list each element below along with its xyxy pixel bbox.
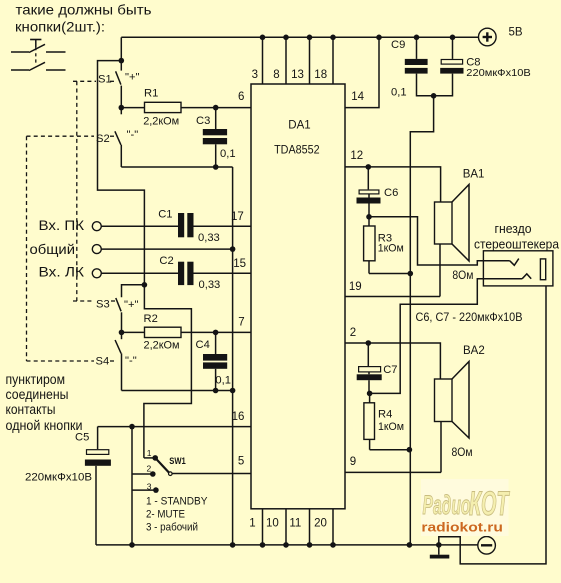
svg-text:Вх. ЛК: Вх. ЛК [39, 263, 85, 279]
svg-text:1кОм: 1кОм [378, 421, 404, 433]
svg-text:общий: общий [30, 241, 76, 257]
svg-text:9: 9 [350, 456, 356, 468]
svg-text:TDA8552: TDA8552 [274, 145, 320, 157]
svg-text:C9: C9 [391, 39, 405, 51]
svg-text:С6, С7 - 220мкФх10В: С6, С7 - 220мкФх10В [416, 310, 523, 324]
svg-text:"-": "-" [125, 355, 137, 367]
svg-text:DA1: DA1 [288, 120, 310, 132]
svg-text:11: 11 [289, 517, 301, 529]
svg-text:соединены: соединены [6, 387, 69, 402]
svg-text:3: 3 [252, 69, 258, 81]
svg-text:Вх. ПК: Вх. ПК [39, 217, 85, 233]
svg-text:BA2: BA2 [463, 345, 485, 357]
svg-text:2: 2 [147, 464, 152, 474]
svg-text:такие должны быть: такие должны быть [16, 2, 152, 18]
svg-text:6: 6 [238, 91, 244, 103]
svg-text:S1: S1 [98, 74, 112, 86]
svg-text:S4: S4 [96, 356, 110, 368]
svg-text:R2: R2 [144, 313, 158, 325]
svg-text:0,1: 0,1 [215, 375, 231, 387]
svg-text:пунктиром: пунктиром [6, 372, 66, 387]
svg-text:одной кнопки: одной кнопки [6, 418, 83, 433]
svg-text:"+": "+" [125, 72, 140, 84]
svg-text:КОТ: КОТ [469, 485, 510, 523]
svg-text:C6: C6 [384, 187, 398, 199]
svg-text:R4: R4 [378, 408, 392, 420]
svg-text:2: 2 [350, 327, 356, 339]
svg-text:SW1: SW1 [169, 456, 186, 466]
svg-text:5: 5 [238, 456, 244, 468]
svg-text:"-": "-" [127, 129, 139, 141]
svg-text:17: 17 [231, 211, 244, 223]
svg-text:2,2кОм: 2,2кОм [143, 116, 179, 128]
svg-text:8Ом: 8Ом [452, 447, 473, 459]
svg-text:1кОм: 1кОм [378, 243, 404, 255]
svg-text:C2: C2 [159, 255, 173, 267]
svg-text:5В: 5В [509, 26, 523, 38]
svg-text:R1: R1 [144, 88, 158, 100]
svg-text:15: 15 [233, 258, 246, 270]
svg-text:13: 13 [291, 69, 304, 81]
svg-text:20: 20 [314, 517, 327, 529]
svg-text:C1: C1 [158, 208, 172, 220]
svg-text:C4: C4 [196, 339, 210, 351]
svg-text:0,1: 0,1 [220, 148, 236, 160]
svg-text:гнездо: гнездо [495, 222, 532, 236]
svg-text:"+": "+" [124, 299, 139, 311]
svg-text:1: 1 [249, 517, 255, 529]
svg-text:3 - рабочий: 3 - рабочий [146, 522, 198, 534]
svg-text:10: 10 [266, 517, 279, 529]
svg-text:2- MUTE: 2- MUTE [146, 509, 185, 521]
svg-text:8Ом: 8Ом [452, 270, 473, 282]
svg-text:1 - STANDBY: 1 - STANDBY [146, 495, 208, 507]
svg-text:С5: С5 [75, 432, 89, 444]
svg-text:контакты: контакты [6, 402, 56, 417]
svg-text:кнопки(2шт.):: кнопки(2шт.): [15, 19, 105, 35]
svg-text:0,1: 0,1 [391, 87, 407, 99]
svg-text:0,33: 0,33 [198, 232, 220, 244]
svg-text:S3: S3 [96, 299, 110, 311]
svg-text:S2: S2 [96, 133, 110, 145]
svg-text:стереоштекера: стереоштекера [474, 238, 559, 252]
svg-text:BA1: BA1 [463, 168, 485, 180]
svg-text:16: 16 [232, 411, 245, 423]
svg-text:8: 8 [273, 69, 279, 81]
svg-text:12: 12 [350, 150, 363, 162]
svg-text:14: 14 [351, 91, 364, 103]
svg-text:C3: C3 [196, 115, 210, 127]
svg-text:1: 1 [147, 448, 152, 458]
svg-text:18: 18 [314, 69, 327, 81]
svg-text:3: 3 [147, 481, 152, 491]
svg-text:C7: C7 [383, 364, 397, 376]
svg-text:Радио: Радио [423, 490, 471, 520]
svg-text:radiokot.ru: radiokot.ru [421, 521, 503, 535]
svg-text:19: 19 [349, 281, 362, 293]
svg-text:7: 7 [238, 316, 244, 328]
svg-text:220мкФх10В: 220мкФх10В [466, 67, 531, 79]
svg-text:220мкФх10В: 220мкФх10В [25, 472, 92, 484]
svg-text:0,33: 0,33 [199, 279, 221, 291]
svg-text:2,2кОм: 2,2кОм [144, 339, 180, 351]
